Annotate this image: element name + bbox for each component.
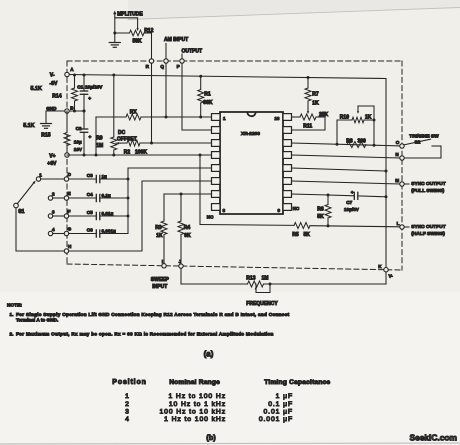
svg-text:Position: Position	[112, 379, 146, 386]
wire R12 to terminal R	[151, 33, 153, 59]
svg-text:1: 1	[223, 116, 226, 121]
capacitor C2 10u/10V	[83, 111, 85, 129]
pin 14 (right)	[283, 140, 292, 147]
svg-text:R15: R15	[41, 133, 50, 139]
wire AM input to terminal Q	[165, 44, 167, 59]
svg-text:R10: R10	[340, 115, 349, 121]
switch S1	[14, 203, 19, 208]
svg-text:1M: 1M	[262, 276, 269, 282]
svg-text:1μ: 1μ	[102, 174, 108, 179]
pin 1 (left)	[212, 114, 221, 121]
svg-text:(b): (b)	[206, 433, 216, 442]
svg-text:E: E	[68, 191, 71, 196]
pin 5 (left)	[212, 165, 221, 172]
svg-text:+: +	[88, 97, 91, 102]
pin 13 (right)	[283, 152, 292, 159]
svg-text:GND: GND	[46, 106, 57, 111]
wire pin 12 to V-	[292, 168, 387, 171]
svg-text:0.01μ: 0.01μ	[102, 211, 114, 216]
pin 16 (right)	[283, 114, 292, 121]
wire pin 10 line	[292, 194, 329, 195]
svg-text:5.1K: 5.1K	[31, 86, 42, 92]
wire terminal R to pin 3 line	[151, 63, 153, 143]
potentiometer R13 1M (frequency)	[248, 281, 264, 287]
svg-text:5K: 5K	[317, 214, 324, 220]
svg-text:+: +	[89, 136, 92, 141]
svg-text:R13: R13	[246, 276, 255, 282]
svg-text:C1: C1	[77, 84, 83, 89]
pin 10 (right)	[283, 191, 292, 198]
svg-text:AM INPUT: AM INPUT	[164, 37, 188, 43]
svg-text:(HALF SWING): (HALF SWING)	[411, 231, 445, 237]
scanner streak top	[128, 0, 460, 19]
switch S2 (tri/sine)	[404, 139, 431, 145]
wire V- right-side vertical	[385, 79, 387, 268]
svg-text:Timing Capacitance: Timing Capacitance	[264, 379, 330, 386]
op-amp U1 XR-2206	[220, 112, 283, 214]
svg-text:RX: RX	[130, 109, 138, 115]
svg-text:10V: 10V	[74, 147, 83, 152]
svg-text:1: 1	[39, 172, 42, 177]
switch S1 contact 1	[36, 177, 40, 181]
terminal O	[400, 144, 404, 148]
svg-text:NOTE:: NOTE:	[7, 303, 22, 309]
ground (amplitude pot)	[114, 33, 116, 43]
svg-text:100 Hz to 10 kHz: 100 Hz to 10 kHz	[159, 408, 226, 415]
svg-text:1 μF: 1 μF	[276, 393, 293, 400]
svg-text:Terminal A to GND.: Terminal A to GND.	[16, 318, 58, 323]
wire pin 7 line	[164, 193, 212, 195]
svg-text:S2: S2	[415, 140, 421, 146]
svg-text:10μ: 10μ	[74, 140, 82, 145]
svg-text:1K: 1K	[156, 233, 163, 239]
svg-text:R14: R14	[52, 94, 61, 100]
svg-text:C2: C2	[76, 126, 82, 131]
svg-text:L: L	[397, 221, 400, 226]
svg-text:G: G	[68, 227, 72, 232]
svg-text:SeekIC.com: SeekIC.com	[410, 433, 457, 443]
svg-text:1 Hz to 100 Hz: 1 Hz to 100 Hz	[168, 393, 226, 400]
svg-text:SYNC OUTPUT: SYNC OUTPUT	[411, 224, 445, 230]
svg-text:P: P	[177, 64, 180, 69]
svg-text:C6: C6	[87, 227, 93, 232]
capacitor C7 10u/6V	[328, 194, 354, 197]
resistor R2 100K	[116, 142, 127, 144]
svg-text:1M: 1M	[96, 143, 103, 149]
wire terminal H to pin 6	[69, 181, 212, 251]
svg-text:OUTPUT: OUTPUT	[182, 48, 203, 54]
resistor R6 5K	[327, 195, 329, 205]
terminal A	[65, 72, 69, 76]
wire pin 11 to terminal M	[292, 181, 400, 184]
svg-text:V-: V-	[389, 274, 394, 279]
terminal V+	[65, 153, 69, 157]
svg-text:0.1μ: 0.1μ	[102, 193, 111, 198]
terminal H	[64, 249, 68, 253]
pin 4 (left)	[212, 152, 221, 159]
svg-text:10μ/6V: 10μ/6V	[344, 207, 360, 212]
svg-text:4: 4	[52, 227, 55, 232]
wire V+ rail	[67, 154, 212, 156]
svg-text:INPUT: INPUT	[152, 284, 167, 290]
svg-text:1 Hz to 100 kHz: 1 Hz to 100 kHz	[164, 416, 226, 423]
svg-text:R12: R12	[144, 28, 153, 34]
svg-text:3: 3	[125, 408, 129, 415]
svg-text:30K: 30K	[203, 100, 213, 106]
switch S1 contact 3	[48, 214, 52, 218]
switch S1 contact 2	[48, 196, 52, 200]
svg-text:100K: 100K	[135, 149, 147, 155]
svg-text:1K: 1K	[312, 101, 319, 107]
svg-text:16: 16	[274, 116, 280, 121]
resistor R7 1K	[307, 78, 309, 89]
dashed box bottom edge	[67, 264, 402, 270]
svg-text:R1: R1	[204, 92, 211, 98]
switch S1 contact 4	[48, 231, 52, 235]
wire terminal J to frequency pot	[181, 268, 248, 284]
capacitor C5 0.01μ (timing)	[69, 215, 97, 217]
resistor RX (pin 1 bias)	[96, 116, 126, 118]
potentiometer R12 50K (amplitude)	[113, 11, 116, 15]
svg-text:300: 300	[358, 139, 367, 145]
terminal K (V-)	[384, 268, 388, 272]
svg-text:1.: 1.	[10, 312, 14, 317]
resistor R8 300	[347, 142, 366, 148]
svg-text:3: 3	[52, 209, 55, 214]
terminal P	[180, 59, 184, 63]
terminal G	[64, 231, 68, 235]
svg-text:(FULL SWING): (FULL SWING)	[411, 188, 444, 194]
svg-text:-6V: -6V	[50, 81, 58, 87]
svg-text:R3: R3	[155, 225, 162, 231]
svg-text:5K: 5K	[304, 232, 311, 238]
svg-text:V-: V-	[50, 73, 55, 79]
svg-text:2: 2	[52, 191, 55, 196]
resistor R1 30K	[200, 76, 202, 89]
pin 3 (left)	[212, 140, 221, 147]
svg-text:C3: C3	[87, 173, 93, 178]
svg-text:SYNC OUTPUT: SYNC OUTPUT	[411, 181, 445, 187]
svg-text:C4: C4	[87, 192, 93, 197]
resistor R3 1K	[163, 194, 165, 221]
dashed box top edge	[67, 60, 402, 62]
svg-text:R5: R5	[292, 232, 299, 238]
potentiometer R11 25K (symmetry)	[292, 116, 301, 118]
terminal B	[65, 109, 69, 113]
dashed box right edge	[401, 61, 403, 270]
svg-text:Q: Q	[160, 64, 164, 69]
svg-text:25K: 25K	[319, 112, 329, 118]
capacitor C6 0.001μ (timing)	[69, 233, 97, 235]
svg-text:FREQUENCY: FREQUENCY	[246, 301, 278, 307]
svg-text:0.001 μF: 0.001 μF	[259, 416, 293, 423]
terminal J	[179, 264, 183, 268]
svg-text:2.: 2.	[10, 331, 14, 336]
terminal Q	[164, 59, 168, 63]
pin 7 (left)	[212, 191, 221, 198]
svg-text:2: 2	[125, 401, 129, 408]
svg-text:O: O	[396, 140, 400, 145]
pin 15 (right)	[283, 127, 292, 134]
svg-text:DC: DC	[118, 130, 126, 136]
svg-text:9K: 9K	[184, 233, 191, 239]
svg-text:For Maximum Output, Rx may be: For Maximum Output, Rx may be open. Rx =…	[16, 331, 274, 336]
svg-text:S1: S1	[18, 209, 24, 215]
svg-text:OFFSET: OFFSET	[117, 137, 137, 143]
terminal L (sync output half swing)	[400, 225, 404, 229]
terminal E	[64, 196, 68, 200]
resistor R5 5K	[200, 224, 294, 227]
svg-text:F: F	[68, 209, 71, 214]
wire pin 14 to terminal O	[292, 143, 400, 146]
svg-text:(a): (a)	[204, 349, 214, 358]
svg-text:R7: R7	[312, 92, 319, 98]
svg-text:For Single Supply Operation Li: For Single Supply Operation Lift GND Con…	[16, 312, 290, 317]
svg-text:4: 4	[125, 416, 129, 423]
wire V- rail from terminal A	[67, 75, 386, 79]
dashed box left edge	[66, 61, 68, 264]
svg-text:0.001μ: 0.001μ	[102, 228, 116, 233]
svg-text:1K: 1K	[365, 115, 372, 121]
terminal D	[64, 177, 68, 181]
svg-text:NC: NC	[207, 214, 214, 219]
pin 8 (left)	[212, 204, 221, 211]
scan edge bottom	[0, 443, 460, 444]
svg-text:+6V: +6V	[47, 161, 57, 167]
svg-text:5.1K: 5.1K	[23, 123, 34, 129]
svg-text:R4: R4	[184, 225, 191, 231]
terminal I (sweep input)	[162, 264, 166, 268]
svg-text:SWEEP: SWEEP	[151, 277, 170, 283]
wire OUTPUT to terminal P	[181, 54, 183, 59]
svg-text:XR-2206: XR-2206	[241, 131, 260, 137]
terminal F	[64, 214, 68, 218]
wire V+ branch to sync divider	[199, 155, 201, 225]
svg-text:NC: NC	[293, 206, 300, 211]
svg-text:R8: R8	[346, 139, 353, 145]
svg-text:C5: C5	[87, 210, 93, 215]
svg-text:R2: R2	[124, 149, 131, 155]
svg-text:R11: R11	[303, 124, 312, 130]
svg-text:C7: C7	[346, 200, 352, 205]
potentiometer R10 1K (sine shaping)	[336, 120, 338, 144]
timing capacitor bus wire	[128, 168, 212, 234]
svg-text:J: J	[179, 259, 182, 264]
svg-text:+: +	[351, 191, 354, 196]
terminal N	[400, 156, 404, 160]
svg-text:10μ/10V: 10μ/10V	[85, 84, 103, 89]
wire pin 13 to terminal N	[292, 155, 400, 158]
pin 9 (right)	[283, 204, 292, 211]
svg-text:TRI/SINE SW: TRI/SINE SW	[409, 133, 439, 139]
wire terminal P to pin 2	[182, 63, 212, 130]
svg-text:R9: R9	[96, 136, 103, 142]
svg-text:50K: 50K	[133, 39, 143, 45]
terminal R	[149, 59, 153, 63]
svg-text:I: I	[162, 259, 163, 264]
svg-text:V+: V+	[49, 154, 55, 160]
capacitor C3 1μ (timing)	[69, 178, 97, 180]
capacitor C1 10u/10V	[83, 75, 85, 91]
pin 11 (right)	[283, 178, 292, 185]
pin 2 (left)	[212, 127, 221, 134]
svg-text:9: 9	[277, 208, 280, 213]
svg-text:MPLITUDE: MPLITUDE	[117, 11, 143, 17]
pin 6 (left)	[212, 178, 221, 185]
capacitor C4 0.1μ (timing)	[69, 197, 97, 199]
svg-text:M: M	[395, 178, 399, 183]
svg-text:R6: R6	[317, 207, 324, 213]
pin 12 (right)	[283, 165, 292, 172]
svg-text:0.01 μF: 0.01 μF	[264, 408, 294, 415]
svg-text:1: 1	[125, 393, 129, 400]
resistor R15 5.1K	[66, 111, 68, 133]
potentiometer R9 1M (DC offset)	[113, 75, 115, 137]
svg-text:0.1 μF: 0.1 μF	[268, 401, 293, 408]
wire terminal Q to pin 1 line	[165, 63, 167, 117]
wire rail B (GND)	[67, 110, 84, 112]
resistor R14 5.1K	[74, 75, 76, 88]
wire RX to V+ rail	[95, 117, 97, 155]
svg-text:Nominal Range: Nominal Range	[169, 379, 220, 386]
wire V- to frequency pot	[385, 272, 387, 284]
svg-text:10 Hz to 1 kHz: 10 Hz to 1 kHz	[169, 401, 226, 408]
terminal M (sync output full swing)	[400, 182, 404, 186]
resistor R4 9K	[180, 194, 182, 221]
svg-text:8: 8	[223, 208, 226, 213]
